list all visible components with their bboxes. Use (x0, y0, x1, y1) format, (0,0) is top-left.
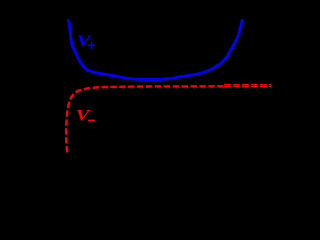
curve V- lower thin dashed continuation (224, 85, 271, 87)
svg-text:V: V (76, 108, 91, 125)
label V+ : subscript plus sign (88, 45, 95, 47)
curve V- upper thin dashed branch (224, 83, 271, 85)
label V- : subscript minus sign (88, 120, 95, 121)
curve V+ (blue solid bathtub curve) (68, 20, 242, 79)
svg-text:V: V (77, 33, 92, 50)
curve V- (red dashed main branch) (66, 86, 224, 152)
